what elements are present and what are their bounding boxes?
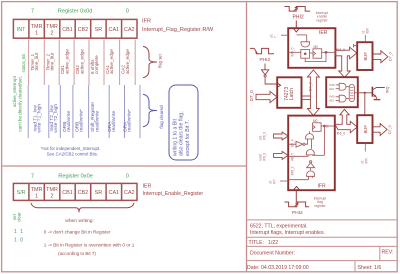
interrupt flag register note xyxy=(314,197,327,208)
wire IE6_0 output xyxy=(322,51,336,53)
svg-text:except for Bit 7.: except for Bit 7. xyxy=(185,120,191,156)
svg-text:TMR: TMR xyxy=(46,24,58,30)
svg-text:status_Bit: status_Bit xyxy=(21,53,26,72)
svg-text:Date:: Date: xyxy=(247,265,259,271)
svg-text:SR: SR xyxy=(95,190,103,196)
wire flag feedback xyxy=(323,126,325,155)
wire xyxy=(311,139,313,149)
set/clear wire label xyxy=(270,34,278,38)
svg-text:active_edge: active_edge xyxy=(64,49,69,74)
IFR register table xyxy=(13,19,137,38)
flag cleared brace xyxy=(143,94,157,126)
svg-text:1/22: 1/22 xyxy=(268,240,278,246)
svg-text:IFR: IFR xyxy=(365,158,369,164)
svg-text:M0: M0 xyxy=(314,45,319,49)
gate G1 write-enable xyxy=(301,42,310,47)
wire gate to cell xyxy=(304,48,306,51)
svg-text:register: register xyxy=(316,18,328,22)
wire inverter to latch clock xyxy=(265,77,279,84)
svg-text:read/write: read/write xyxy=(66,111,72,132)
svg-text:0: 0 xyxy=(20,238,23,244)
svg-text:active_edge: active_edge xyxy=(125,49,130,74)
read_IER enable wire xyxy=(364,35,366,42)
svg-text:active_Interrupt: active_Interrupt xyxy=(12,75,17,107)
svg-text:IF7: IF7 xyxy=(272,179,276,184)
svg-text:See CA2/CB2 control Bits.: See CA2/CB2 control Bits. xyxy=(47,152,99,157)
svg-text:active_edge: active_edge xyxy=(109,49,114,74)
svg-text:Interrupt flags, Interrupt ena: Interrupt flags, Interrupt enables. xyxy=(250,230,325,236)
svg-text:D7_0: D7_0 xyxy=(309,82,313,91)
svg-text:1: 1 xyxy=(35,31,38,37)
svg-text:1 -> Bit in Register is overwr: 1 -> Bit in Register is overwritten with… xyxy=(44,243,135,248)
svg-text:CA1: CA1 xyxy=(109,190,120,196)
flag-clear row column separators xyxy=(28,85,140,138)
svg-text:(according to Bit 7): (according to Bit 7) xyxy=(58,251,96,256)
set input arrow to IFR xyxy=(274,132,288,140)
svg-text:writing 1 to a Bit: writing 1 to a Bit xyxy=(173,119,179,156)
svg-text:IER: IER xyxy=(366,27,370,33)
svg-text:write T2_high: write T2_high xyxy=(53,104,59,133)
svg-text:when writing:: when writing: xyxy=(65,218,94,224)
wire set/clear to gate xyxy=(297,34,307,36)
wire IM8_2 input xyxy=(288,179,308,181)
svg-text:1: 1 xyxy=(14,229,17,235)
svg-text:TITLE:: TITLE: xyxy=(249,240,265,246)
wire SR_4 input xyxy=(288,143,296,145)
ground xyxy=(375,97,377,99)
D7_0 output arrow (top) xyxy=(373,51,388,63)
svg-text:read/write*: read/write* xyxy=(127,109,133,132)
svg-text:flag cleared: flag cleared xyxy=(159,105,164,129)
svg-text:TMR: TMR xyxy=(31,187,43,193)
mask gate B xyxy=(339,95,346,102)
read_IFR enable wire xyxy=(364,143,366,152)
svg-text:REV:: REV: xyxy=(382,250,394,256)
read buffer U2 xyxy=(357,115,372,143)
svg-text:IM8_2: IM8_2 xyxy=(290,166,294,175)
title block text xyxy=(247,224,393,271)
title block grid xyxy=(247,220,398,272)
svg-text:IRQ: IRQ xyxy=(385,86,389,93)
svg-text:PHI2: PHI2 xyxy=(260,57,271,63)
internal data bus arrow (IER-IFR) xyxy=(307,70,319,116)
svg-text:time_out: time_out xyxy=(34,52,39,70)
svg-text:BUF: BUF xyxy=(363,125,368,134)
svg-text:IM6_0: IM6_0 xyxy=(291,47,295,56)
IER internal logic xyxy=(288,35,335,62)
interrupt enable register note xyxy=(316,11,329,22)
wire IF7 to read buffer xyxy=(364,93,366,115)
svg-text:CB2: CB2 xyxy=(78,27,89,33)
IFR block xyxy=(288,116,335,191)
junction xyxy=(325,51,327,53)
svg-text:INT: INT xyxy=(17,27,26,33)
svg-text:04.03.2019 17:09:00: 04.03.2019 17:09:00 xyxy=(261,265,309,271)
IFR clock notch (bottom) xyxy=(293,186,299,190)
inverter U3 xyxy=(296,141,303,147)
svg-text:2: 2 xyxy=(51,31,54,37)
svg-text:IE0: IE0 xyxy=(329,98,334,102)
svg-text:IF6_0: IF6_0 xyxy=(262,132,266,140)
wire xyxy=(307,176,309,179)
wire xyxy=(307,155,309,156)
IE6_0 bus arrow IER to BUF xyxy=(335,47,356,77)
svg-text:D7_0: D7_0 xyxy=(388,125,392,134)
svg-text:Document Number:: Document Number: xyxy=(250,251,295,257)
svg-text:Interrupt_Enable_Register: Interrupt_Enable_Register xyxy=(143,191,204,197)
svg-text:D7_0: D7_0 xyxy=(249,90,254,101)
svg-text:read/write: read/write xyxy=(95,111,101,132)
wire IM6_0 input xyxy=(288,51,301,53)
svg-text:read/write*: read/write* xyxy=(79,109,85,132)
svg-text:Latch: Latch xyxy=(289,88,295,100)
svg-text:time_out: time_out xyxy=(50,52,55,70)
transistor Q1 xyxy=(371,87,373,97)
svg-text:PHI2: PHI2 xyxy=(292,210,303,216)
flag set brace xyxy=(143,46,157,77)
svg-text:TMR: TMR xyxy=(31,24,43,30)
svg-text:flag set: flag set xyxy=(158,53,163,67)
flag-set row column separators xyxy=(29,40,136,86)
svg-text:IFR: IFR xyxy=(142,18,151,24)
svg-text:IE6: IE6 xyxy=(329,87,334,91)
PHI2 clock waveform (left) xyxy=(250,48,274,53)
brace under IER table xyxy=(31,203,134,212)
svg-text:BUF: BUF xyxy=(363,52,368,61)
D7_0 output arrow (bottom) xyxy=(373,124,387,136)
wire gates block to transistor base xyxy=(358,92,372,94)
buffer enable stub xyxy=(354,44,358,47)
svg-text:CB1: CB1 xyxy=(62,190,73,196)
wire xyxy=(307,139,309,142)
interrupt mask gates block xyxy=(326,77,358,107)
svg-text:1: 1 xyxy=(20,229,23,235)
schematic sheet border xyxy=(246,2,248,272)
IFR internal logic xyxy=(288,123,335,180)
svg-text:IER: IER xyxy=(319,30,328,36)
junction xyxy=(364,92,366,94)
svg-text:TMR: TMR xyxy=(46,187,58,193)
inverter U4 xyxy=(307,163,315,168)
svg-text:complete: complete xyxy=(94,55,99,74)
wire xyxy=(311,154,313,156)
IER block xyxy=(288,28,335,68)
gate G4 clear xyxy=(307,171,315,176)
svg-text:6522, TTL, experimental.: 6522, TTL, experimental. xyxy=(250,224,308,230)
IER register table xyxy=(13,183,137,200)
wire xyxy=(312,176,314,177)
wire AB_5 input xyxy=(288,155,308,157)
svg-text:0 -> don't change Bit in Regis: 0 -> don't change Bit in Register xyxy=(44,229,111,234)
IF6_0 bus arrow IFR to BUF with branch to gates xyxy=(335,109,357,132)
PHI2 clock waveform (top) xyxy=(284,7,310,12)
svg-text:can't be directly cleared/set.: can't be directly cleared/set. xyxy=(18,76,23,132)
flag-set condition labels xyxy=(30,49,130,74)
svg-text:read/write: read/write xyxy=(111,111,117,132)
svg-text:IF6_0: IF6_0 xyxy=(337,132,346,136)
svg-text:IF6_0: IF6_0 xyxy=(262,153,266,161)
svg-text:Register 0x0e: Register 0x0e xyxy=(58,173,93,179)
writing-1 note box xyxy=(169,85,198,160)
svg-text:PHI2: PHI2 xyxy=(293,15,304,21)
svg-text:CB2: CB2 xyxy=(78,190,89,196)
svg-text:write T1_high: write T1_high xyxy=(37,104,43,133)
svg-text:1/6: 1/6 xyxy=(374,265,381,271)
IER clock notch xyxy=(294,29,299,32)
gate G2 flag-set xyxy=(306,134,314,139)
flip-flop M1 xyxy=(313,123,322,132)
summing OR bar xyxy=(349,84,354,101)
svg-text:IER: IER xyxy=(143,184,152,190)
svg-text:clear: clear xyxy=(17,212,22,222)
svg-text:SR_4: SR_4 xyxy=(290,139,294,147)
wire IF6_0 output xyxy=(321,125,335,127)
wire cell to flip-flop xyxy=(310,52,314,54)
reset input arrow to IFR xyxy=(274,151,288,159)
svg-text:CA2: CA2 xyxy=(124,27,135,33)
svg-text:Register 0x0d: Register 0x0d xyxy=(58,8,93,14)
svg-text:IF: IF xyxy=(326,125,330,128)
wire inverter to gate xyxy=(305,142,307,145)
svg-text:IFR: IFR xyxy=(318,184,326,190)
inverter on PHI2 xyxy=(264,64,266,70)
svg-text:*not for independent_Interrupt: *not for independent_Interrupt. xyxy=(41,146,101,151)
read buffer U1 xyxy=(357,42,372,70)
svg-text:CA1: CA1 xyxy=(109,27,120,33)
svg-text:M0: M0 xyxy=(313,119,318,123)
svg-text:SR: SR xyxy=(95,27,103,33)
svg-text:7: 7 xyxy=(31,173,34,179)
D7_0 bus arrow into latch xyxy=(256,91,277,102)
svg-text:Interrupt_Flag_Register R/W: Interrupt_Flag_Register R/W xyxy=(142,27,214,33)
svg-text:IE6_0: IE6_0 xyxy=(336,48,345,52)
section divider line xyxy=(2,165,246,167)
svg-text:7: 7 xyxy=(274,36,278,38)
svg-text:Sheet:: Sheet: xyxy=(358,265,373,271)
svg-text:0: 0 xyxy=(126,8,129,14)
wire xyxy=(310,168,312,171)
svg-text:1: 1 xyxy=(14,238,17,244)
svg-text:active_edge: active_edge xyxy=(79,49,84,74)
svg-text:also clears the flag,: also clears the flag, xyxy=(179,111,185,156)
latch output wires xyxy=(302,95,311,97)
svg-text:7: 7 xyxy=(31,8,34,14)
svg-text:D7_0: D7_0 xyxy=(389,52,393,61)
junction xyxy=(324,125,326,127)
wire feedback loop xyxy=(305,52,326,61)
flag-clear condition labels xyxy=(32,101,132,132)
svg-text:1: 1 xyxy=(35,194,38,200)
svg-text:0: 0 xyxy=(126,173,129,179)
svg-text:S/R: S/R xyxy=(17,190,26,196)
svg-text:CB1: CB1 xyxy=(62,27,73,33)
set/clear input wire to IER xyxy=(281,34,288,36)
svg-text:CA2: CA2 xyxy=(124,190,135,196)
wire gate to flip-flop xyxy=(309,131,311,133)
mask gate A xyxy=(339,83,346,90)
enable bit cell xyxy=(301,50,310,59)
gate G3 hold xyxy=(306,150,314,155)
svg-text:register: register xyxy=(314,204,326,208)
wire PHI2 to IER clock xyxy=(295,21,297,29)
wire IFR clock to PHI2 xyxy=(295,191,297,202)
svg-text:AB_5: AB_5 xyxy=(290,153,294,161)
svg-text:2: 2 xyxy=(51,194,54,200)
74273 latch xyxy=(277,77,301,108)
third input wire to IFR xyxy=(280,180,288,182)
PHI2 clock waveform (bottom) xyxy=(284,202,309,207)
flip-flop M0 xyxy=(313,49,322,58)
wire hold to feedback xyxy=(312,154,324,156)
